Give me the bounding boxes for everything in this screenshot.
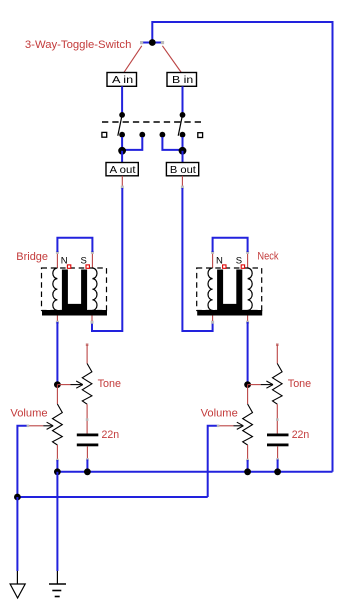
label Bridge xyxy=(16,251,48,263)
wire switch B throws to B out xyxy=(162,137,186,163)
pin square S xyxy=(86,265,89,268)
pickup Bridge xyxy=(42,238,108,324)
volume top stub xyxy=(56,385,58,404)
svg-text:N: N xyxy=(216,255,223,266)
ground earth xyxy=(49,584,66,597)
neck coil right xyxy=(248,268,253,310)
svg-text:Tone: Tone xyxy=(288,378,311,390)
svg-text:Volume: Volume xyxy=(10,408,47,420)
wire bridge coil top loop xyxy=(56,252,58,268)
node B in xyxy=(167,73,197,87)
svg-text:B out: B out xyxy=(170,164,196,176)
pin square N xyxy=(67,265,70,268)
label Volume bridge xyxy=(10,408,47,420)
potentiometer Volume neck xyxy=(208,385,253,497)
pin square N xyxy=(223,265,226,268)
wire bridge N bottom stub xyxy=(56,316,58,323)
potentiometer Volume bridge xyxy=(17,385,62,497)
wire switch A throws to A out xyxy=(118,137,142,163)
volume top stub xyxy=(247,385,249,404)
tone bottom stub xyxy=(276,404,278,433)
tone resistor body xyxy=(273,364,283,405)
volume wiper arrow xyxy=(28,425,44,427)
capacitor 22n bridge xyxy=(77,434,99,472)
wire wiper bus xyxy=(14,494,208,501)
neck pickup dashed body xyxy=(197,268,262,311)
wire to chassis ground xyxy=(16,497,18,584)
wire top loop from switch common to output bus right side xyxy=(152,22,332,472)
label Tone neck xyxy=(288,378,311,390)
bridge baseplate bar xyxy=(42,310,107,316)
potentiometer Tone neck xyxy=(248,343,283,433)
wire neck S to volume junction xyxy=(244,322,251,388)
wire bridge N to volume junction xyxy=(54,322,61,388)
wire B out to neck pickup N terminal xyxy=(181,176,214,331)
switch mechanical link dashed line xyxy=(102,121,203,123)
tone bottom stub xyxy=(86,404,88,433)
volume bottom stub xyxy=(56,445,58,460)
capacitor 22n neck xyxy=(267,434,289,472)
wire neck S bottom stub xyxy=(247,316,249,323)
node A in xyxy=(107,73,137,87)
tone resistor body xyxy=(82,364,92,405)
wire output bus xyxy=(54,468,333,475)
wire volume wiper to ground bus xyxy=(208,426,218,497)
wire red diagonal to A in xyxy=(124,46,142,73)
svg-text:N: N xyxy=(61,255,68,266)
switch pole B xyxy=(160,112,203,138)
wire B in to switch pole xyxy=(182,86,184,115)
volume resistor body xyxy=(243,404,253,445)
volume wiper arrow xyxy=(218,425,234,427)
svg-text:Bridge: Bridge xyxy=(16,251,48,263)
label 3-Way-Toggle-Switch xyxy=(25,39,132,51)
svg-text:Volume: Volume xyxy=(201,408,238,420)
tone wiper arrow xyxy=(261,384,272,386)
wire A in to switch pole xyxy=(121,86,123,115)
ground chassis triangle xyxy=(10,584,25,598)
wire junction to tone wiper xyxy=(248,384,261,386)
label Neck xyxy=(257,251,279,263)
tone top stub xyxy=(276,343,279,346)
bridge pickup dashed body xyxy=(42,268,107,311)
switch pole A xyxy=(102,112,145,138)
bridge magnet U core xyxy=(62,270,87,311)
svg-text:A in: A in xyxy=(112,74,133,86)
wire A out to bridge pickup S terminal xyxy=(91,176,124,331)
wire neck coil top loop xyxy=(212,252,214,268)
tone wiper arrow xyxy=(71,384,82,386)
wire volume wiper to ground xyxy=(17,426,27,497)
wire junction to tone wiper xyxy=(57,384,70,386)
svg-text:Tone: Tone xyxy=(98,378,121,390)
bridge coil left xyxy=(53,268,58,310)
pickup Neck xyxy=(197,238,263,324)
pin square S xyxy=(241,265,244,268)
node B out xyxy=(166,163,198,177)
label Volume neck xyxy=(201,408,238,420)
neck coil left xyxy=(208,268,213,310)
wire to earth ground xyxy=(56,472,58,584)
svg-text:3-Way-Toggle-Switch: 3-Way-Toggle-Switch xyxy=(25,39,132,51)
volume resistor body xyxy=(53,404,63,445)
node switch common junction xyxy=(140,39,164,46)
tone top stub xyxy=(86,343,89,346)
label 22n bridge xyxy=(102,429,120,441)
svg-text:B in: B in xyxy=(172,74,193,86)
label Tone bridge xyxy=(98,378,121,390)
node A out xyxy=(106,163,138,177)
svg-text:A out: A out xyxy=(110,164,136,176)
svg-text:22n: 22n xyxy=(102,429,120,441)
wire red diagonal to B in xyxy=(162,46,181,73)
svg-text:22n: 22n xyxy=(292,429,310,441)
label 22n neck xyxy=(292,429,310,441)
neck magnet U core xyxy=(217,270,242,311)
potentiometer Tone bridge xyxy=(57,343,92,433)
bridge coil right xyxy=(92,268,97,310)
neck baseplate bar xyxy=(197,310,262,316)
volume bottom stub xyxy=(247,445,249,460)
svg-text:Neck: Neck xyxy=(257,251,279,263)
